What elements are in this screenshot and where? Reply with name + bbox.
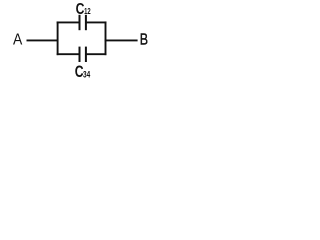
svg-text:A: A <box>13 32 23 49</box>
wire top-right segment <box>86 21 107 23</box>
wire top-left segment <box>57 21 80 23</box>
svg-text:34: 34 <box>83 70 91 81</box>
wire bottom-right segment <box>86 53 107 55</box>
wire bottom-left segment <box>57 53 80 55</box>
wire A to left junction <box>27 39 59 41</box>
svg-text:12: 12 <box>84 6 91 16</box>
wire left vertical <box>57 21 59 55</box>
svg-text:C: C <box>76 1 85 18</box>
wire right junction to B <box>105 39 138 41</box>
capacitor C12 <box>76 1 91 30</box>
svg-text:B: B <box>140 32 148 49</box>
capacitor C34 <box>75 47 91 81</box>
wire right vertical <box>105 21 107 55</box>
